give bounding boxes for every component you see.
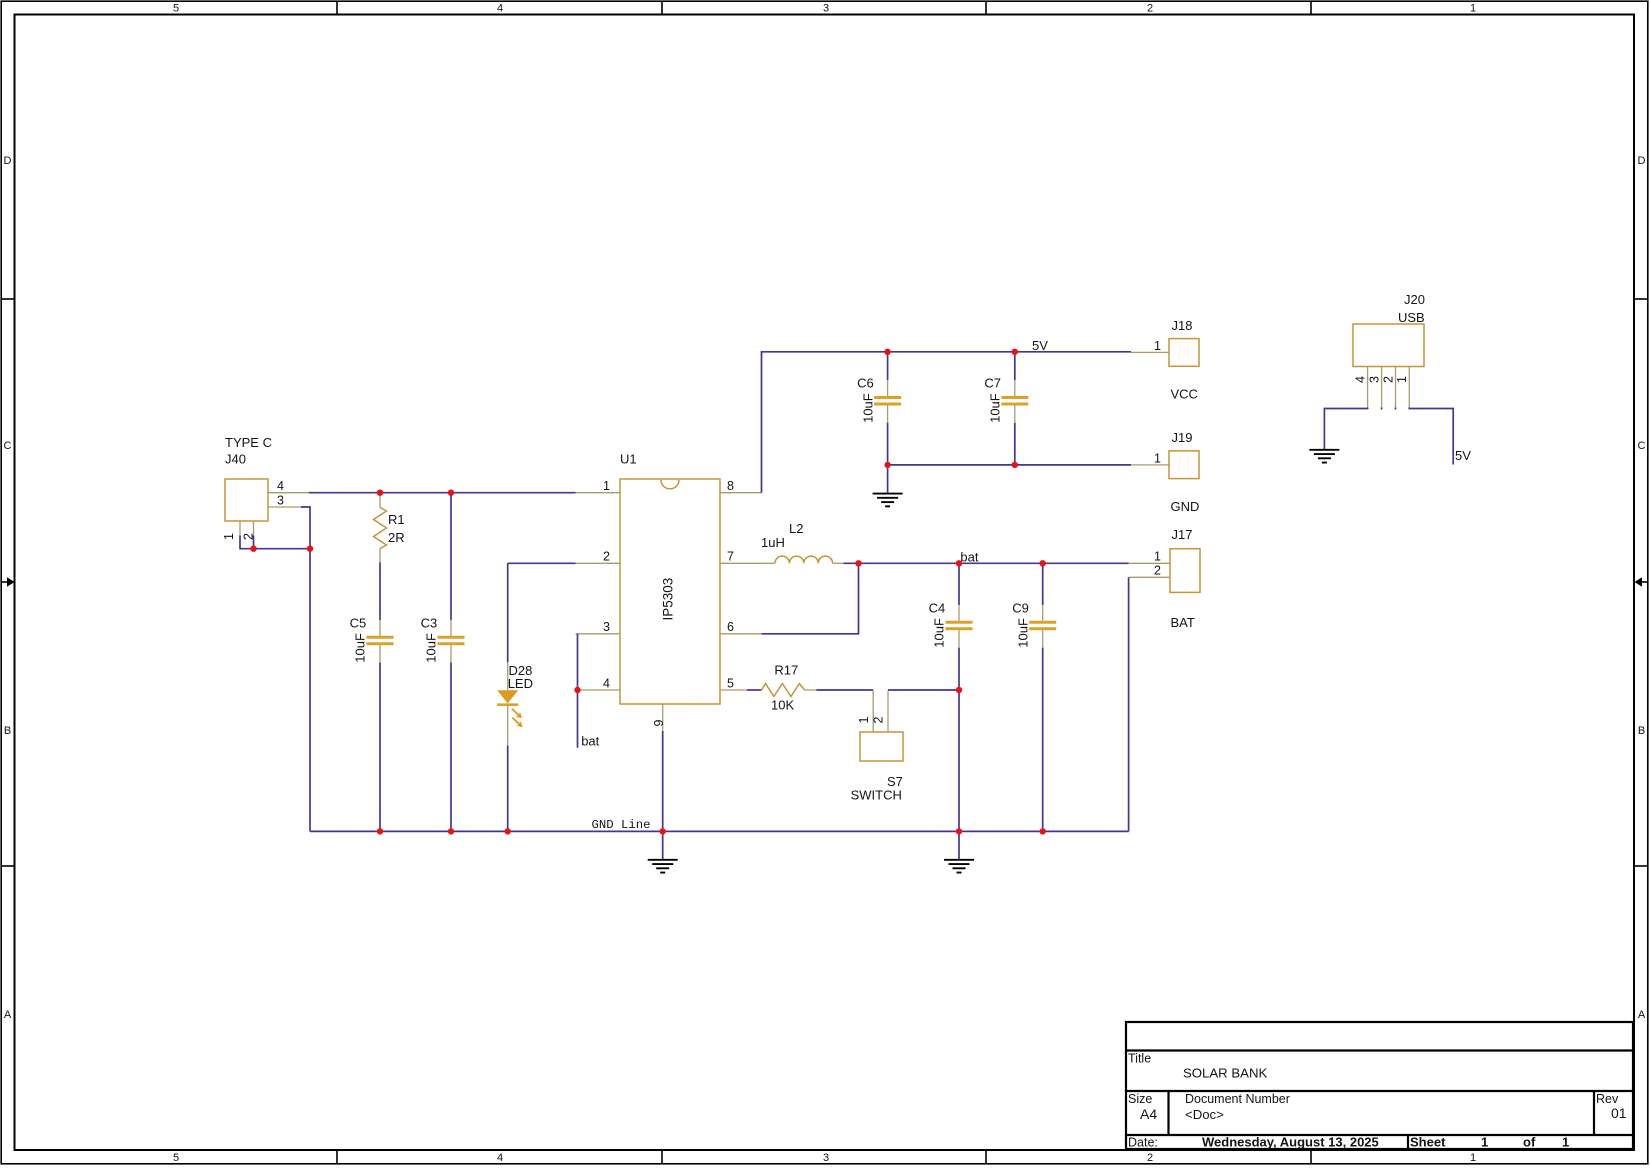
junction C6 top — [884, 349, 890, 355]
svg-text:GND: GND — [1171, 499, 1200, 514]
svg-text:1: 1 — [1154, 451, 1161, 465]
svg-text:R1: R1 — [388, 512, 405, 527]
J40 pin 4 — [268, 479, 309, 493]
wire J40.3 down — [301, 507, 310, 831]
capacitor C3 10uF — [421, 615, 465, 662]
svg-text:Date:: Date: — [1128, 1136, 1158, 1150]
wire C3 to GND line — [450, 663, 452, 832]
wire U1.3 down to U1.4 bat — [577, 634, 579, 748]
svg-text:01: 01 — [1611, 1105, 1627, 1121]
svg-text:U1: U1 — [620, 452, 637, 467]
svg-text:9: 9 — [652, 720, 666, 727]
capacitor C4 10uF — [929, 600, 973, 647]
wire C4 to GND line — [958, 648, 960, 860]
junction C5 GND — [377, 828, 383, 834]
svg-text:D: D — [1638, 155, 1646, 167]
wire U1.8 to 5V rail — [762, 352, 1132, 493]
svg-text:1: 1 — [857, 717, 871, 724]
svg-text:10uF: 10uF — [424, 633, 439, 663]
svg-text:10uF: 10uF — [988, 393, 1003, 423]
U1 pin 2 — [576, 550, 621, 564]
wire GND Line — [310, 830, 1129, 832]
J18 pin 1 — [1131, 339, 1169, 353]
svg-text:Sheet: Sheet — [1410, 1135, 1446, 1150]
svg-text:L2: L2 — [789, 521, 803, 536]
svg-text:C5: C5 — [350, 615, 367, 630]
svg-text:3: 3 — [823, 3, 829, 15]
svg-text:1: 1 — [222, 533, 236, 540]
svg-text:4: 4 — [497, 1152, 503, 1164]
svg-text:Document Number: Document Number — [1185, 1092, 1290, 1106]
switch S7 — [851, 732, 903, 803]
J20 pin 1 — [1395, 367, 1409, 408]
svg-text:4: 4 — [277, 479, 284, 493]
svg-text:B: B — [1638, 725, 1645, 737]
wire J20.3 stub — [1395, 408, 1397, 410]
wire J40.1 J40.2 to GND column — [240, 536, 310, 549]
junction U1.4 — [574, 687, 580, 693]
led D28 — [497, 662, 533, 746]
svg-text:C: C — [1638, 440, 1646, 452]
wire VIN J40.4 to U1.1 — [309, 492, 576, 494]
junction L2 out — [855, 560, 861, 566]
svg-text:2: 2 — [872, 717, 886, 724]
junction C6 bottom — [884, 462, 890, 468]
svg-text:1uH: 1uH — [761, 535, 785, 550]
svg-text:C6: C6 — [857, 376, 874, 391]
wire S7.2 to C4 column — [888, 689, 959, 691]
svg-text:R17: R17 — [774, 663, 798, 678]
svg-text:10uF: 10uF — [1015, 618, 1030, 648]
svg-text:10uF: 10uF — [932, 618, 947, 648]
J17 pin 1 — [1129, 550, 1170, 564]
junction C4 GND line — [956, 828, 962, 834]
svg-text:5V: 5V — [1455, 448, 1471, 463]
wire U1.2 to LED column — [508, 563, 576, 662]
svg-text:1: 1 — [1395, 376, 1409, 383]
svg-text:LED: LED — [508, 676, 533, 691]
junction C7 top — [1012, 349, 1018, 355]
svg-text:1: 1 — [1154, 339, 1161, 353]
svg-text:1: 1 — [1562, 1135, 1569, 1150]
svg-text:10K: 10K — [771, 697, 794, 712]
svg-text:Wednesday, August 13, 2025: Wednesday, August 13, 2025 — [1202, 1135, 1379, 1150]
J40 pin 1 — [222, 521, 240, 540]
junction C9 GND line — [1040, 828, 1046, 834]
svg-text:4: 4 — [603, 676, 610, 690]
capacitor C6 10uF — [857, 376, 901, 423]
wire C9 to GND line — [1042, 648, 1044, 832]
wire C6 C7 to J19 — [888, 464, 1131, 466]
resistor R1 2R — [374, 493, 405, 562]
svg-text:Size: Size — [1128, 1092, 1152, 1106]
wire bat to C4 — [958, 563, 960, 605]
svg-text:2: 2 — [1154, 564, 1161, 578]
svg-text:C3: C3 — [421, 615, 438, 630]
junction J40 pin2 — [250, 546, 256, 552]
svg-text:bat: bat — [581, 734, 599, 749]
wire LED to GND line — [507, 746, 509, 832]
U1 pin 1 — [576, 479, 621, 493]
svg-text:2R: 2R — [388, 530, 405, 545]
svg-text:SWITCH: SWITCH — [851, 788, 902, 803]
ground under C4 — [944, 860, 974, 873]
svg-text:1: 1 — [1470, 3, 1476, 15]
svg-text:BAT: BAT — [1171, 615, 1195, 630]
svg-text:8: 8 — [727, 479, 734, 493]
svg-text:1: 1 — [1481, 1135, 1488, 1150]
svg-text:A: A — [4, 1009, 12, 1021]
U1 pin 4 — [578, 676, 621, 690]
wire R1 to C5 — [379, 562, 381, 620]
svg-text:6: 6 — [727, 620, 734, 634]
svg-text:3: 3 — [1367, 376, 1381, 383]
junction U1.9 GND line — [660, 828, 666, 834]
svg-text:C9: C9 — [1012, 600, 1029, 615]
U1 pin 8 — [720, 479, 762, 493]
wire L2 to J17 bat rail — [844, 562, 1129, 564]
junction S7 C4 — [956, 687, 962, 693]
IC U1 IP5303 body — [620, 452, 720, 705]
U1 pin 3 — [576, 620, 621, 634]
svg-text:1: 1 — [603, 479, 610, 493]
svg-text:5: 5 — [173, 3, 179, 15]
wire C3 column top — [450, 493, 452, 620]
ground under U1.9 — [648, 860, 678, 873]
svg-text:D: D — [4, 155, 12, 167]
connector J19 GND — [1169, 430, 1199, 514]
U1 pin 7 — [720, 550, 762, 564]
wire 5V to C6 — [887, 352, 889, 380]
capacitor C5 10uF — [350, 615, 394, 662]
svg-text:5: 5 — [727, 676, 734, 690]
junction J40 pin3 column — [307, 546, 313, 552]
U1 pin 5 — [720, 676, 747, 690]
svg-text:C4: C4 — [929, 600, 946, 615]
J19 pin 1 — [1131, 451, 1169, 465]
wire J17.2 to GND line — [1128, 577, 1130, 831]
J40 pin 2 — [242, 521, 256, 540]
svg-text:5: 5 — [173, 1152, 179, 1164]
junction LED GND — [505, 828, 511, 834]
svg-text:TYPE C: TYPE C — [225, 435, 272, 450]
svg-text:J40: J40 — [225, 452, 246, 467]
svg-text:2: 2 — [603, 550, 610, 564]
svg-text:4: 4 — [1353, 376, 1367, 383]
title block — [1126, 1022, 1633, 1149]
svg-text:C: C — [4, 440, 12, 452]
inductor L2 1uH — [761, 521, 844, 563]
wire C6 bottom — [887, 423, 889, 494]
svg-text:J20: J20 — [1404, 292, 1425, 307]
connector J40 TYPE C — [225, 435, 272, 521]
svg-text:of: of — [1523, 1135, 1536, 1150]
junction C4 top — [956, 560, 962, 566]
junction C7 bottom — [1012, 462, 1018, 468]
ground under C6 — [873, 494, 903, 507]
J20 pin 2 — [1381, 367, 1395, 408]
svg-text:J18: J18 — [1172, 318, 1193, 333]
svg-text:C7: C7 — [984, 376, 1001, 391]
wire C7 bottom — [1014, 423, 1016, 465]
wire 5V to C7 — [1014, 352, 1016, 380]
ground under J20.4 — [1309, 450, 1339, 463]
S7 pin 1 — [857, 691, 873, 733]
svg-text:A4: A4 — [1140, 1106, 1157, 1122]
wire J20.1 to 5V — [1409, 408, 1453, 465]
svg-text:10uF: 10uF — [353, 633, 368, 663]
svg-text:2: 2 — [1147, 3, 1153, 15]
S7 pin 2 — [872, 691, 889, 733]
svg-text:Title: Title — [1128, 1052, 1151, 1066]
svg-text:1: 1 — [1154, 550, 1161, 564]
svg-text:J19: J19 — [1172, 430, 1193, 445]
svg-text:5V: 5V — [1032, 338, 1048, 353]
capacitor C9 10uF — [1012, 600, 1056, 647]
junction C3 top — [448, 490, 454, 496]
svg-text:Rev: Rev — [1596, 1092, 1619, 1106]
connector J18 VCC — [1169, 318, 1199, 402]
junction C9 top — [1040, 560, 1046, 566]
svg-text:2: 2 — [1381, 376, 1395, 383]
J20 pin 4 — [1353, 367, 1367, 408]
U1 pin 9 — [652, 704, 666, 731]
svg-text:J17: J17 — [1172, 527, 1193, 542]
svg-text:3: 3 — [823, 1152, 829, 1164]
svg-text:A: A — [1638, 1009, 1646, 1021]
svg-text:3: 3 — [603, 620, 610, 634]
J20 pin 3 — [1367, 367, 1381, 408]
resistor R17 10K — [762, 663, 817, 713]
wire U1.5 to R17 — [747, 689, 762, 691]
svg-text:7: 7 — [727, 550, 734, 564]
wire bat to C9 — [1042, 563, 1044, 605]
connector J20 USB — [1353, 292, 1425, 367]
svg-text:SOLAR BANK: SOLAR BANK — [1183, 1066, 1267, 1081]
capacitor C7 10uF — [984, 376, 1028, 423]
connector J17 BAT — [1170, 527, 1200, 630]
svg-text:<Doc>: <Doc> — [1185, 1107, 1224, 1122]
J17 pin 2 — [1129, 564, 1170, 578]
svg-text:IP5303: IP5303 — [661, 578, 676, 621]
svg-text:USB: USB — [1398, 310, 1425, 325]
wire U1.9 to GND — [662, 731, 664, 860]
svg-text:bat: bat — [960, 550, 978, 565]
svg-text:4: 4 — [497, 3, 503, 15]
svg-text:2: 2 — [1147, 1152, 1153, 1164]
U1 pin 6 — [720, 620, 762, 634]
svg-text:B: B — [4, 725, 11, 737]
svg-text:GND Line: GND Line — [592, 818, 651, 832]
junction C3 GND — [448, 828, 454, 834]
svg-text:VCC: VCC — [1171, 387, 1198, 402]
junction R1 top — [377, 490, 383, 496]
wire L2 out to U1.6 — [762, 563, 859, 634]
svg-text:3: 3 — [277, 494, 284, 508]
wire J20.4 to ground — [1324, 408, 1367, 450]
wire R17 to S7 — [816, 689, 873, 691]
wire C5 to GND line — [379, 663, 381, 832]
svg-text:10uF: 10uF — [860, 393, 875, 423]
J40 pin 3 — [268, 494, 301, 508]
svg-text:1: 1 — [1470, 1152, 1476, 1164]
wire J20.2 stub — [1381, 408, 1383, 410]
